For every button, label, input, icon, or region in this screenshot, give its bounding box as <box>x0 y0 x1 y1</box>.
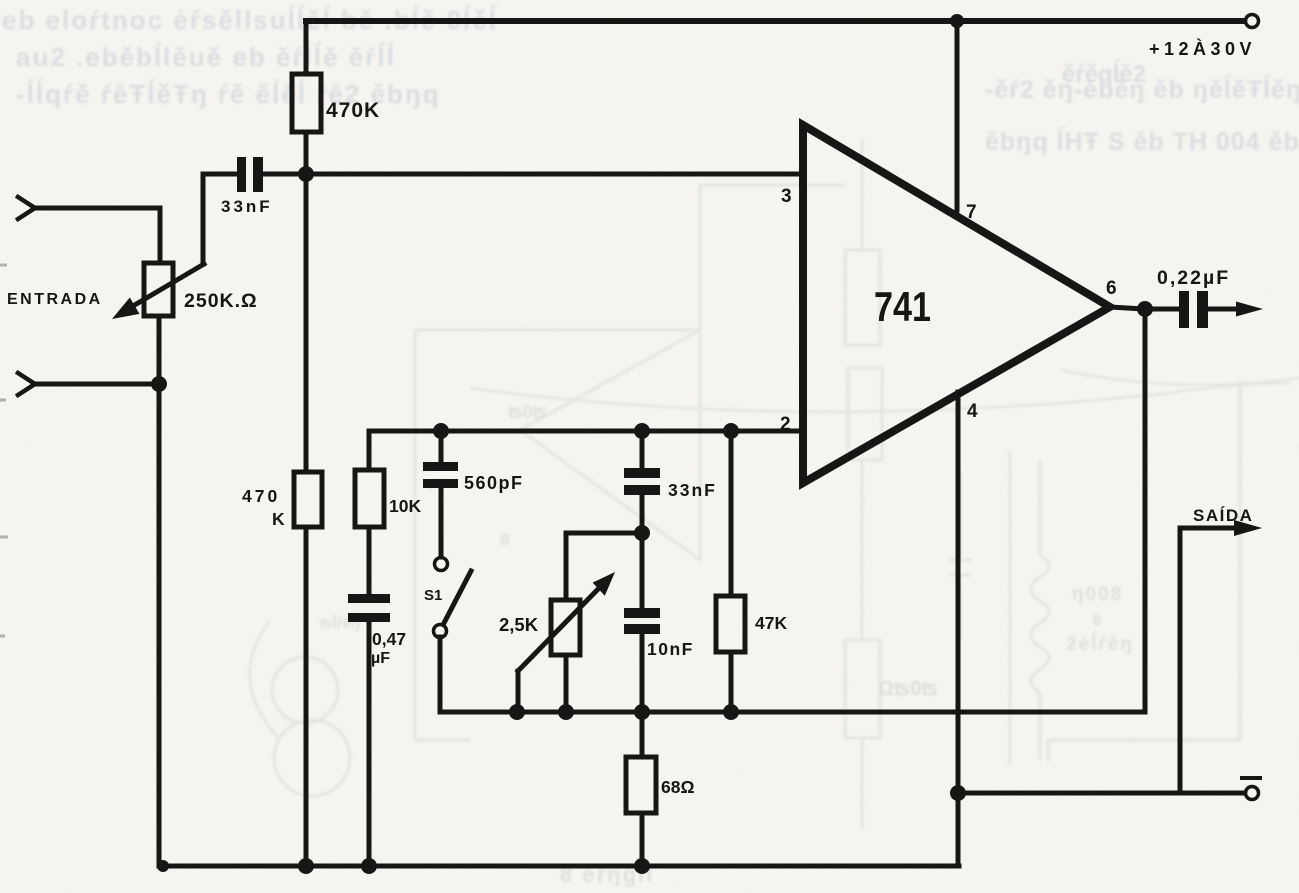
svg-text:470: 470 <box>242 486 280 506</box>
node pot rail junction <box>558 704 574 720</box>
svg-text:10K: 10K <box>389 496 421 516</box>
svg-text:250K.Ω: 250K.Ω <box>184 290 258 312</box>
wire output <box>1110 307 1179 309</box>
capacitor 33nF (feedback) <box>640 431 645 469</box>
svg-text:ENTRADA: ENTRADA <box>7 291 103 308</box>
potentiometer 2,5K <box>566 533 642 600</box>
svg-text:SAÍDA: SAÍDA <box>1193 506 1253 525</box>
node 33nF/10nF junction <box>634 525 650 541</box>
capacitor 0,22uF <box>1179 291 1189 328</box>
pin 4 <box>956 392 961 866</box>
wire left bias vertical <box>304 174 309 866</box>
svg-text:7: 7 <box>966 202 977 223</box>
node ground left corner <box>157 860 169 872</box>
svg-text:K: K <box>272 509 285 529</box>
wiper arrow of 2,5K pot <box>518 584 603 671</box>
capacitor 0,47uF <box>348 594 390 603</box>
svg-text:741: 741 <box>874 283 931 330</box>
resistor 470K (top) <box>304 21 309 174</box>
resistor 47K <box>729 431 734 712</box>
svg-text:33nF: 33nF <box>221 197 273 216</box>
wire upper input <box>33 208 160 263</box>
capacitor 33nF (input) <box>203 172 238 177</box>
op-amp 741 <box>803 125 1110 483</box>
svg-text:68Ω: 68Ω <box>661 777 695 797</box>
wire feedback vertical <box>1143 309 1148 712</box>
wire wiper drop <box>201 174 206 264</box>
node 47K top junction <box>723 423 739 439</box>
svg-text:S1: S1 <box>424 587 442 604</box>
node 47K rail junction <box>723 704 739 720</box>
node 68ohm ground junction <box>634 858 650 874</box>
left edge print artifacts <box>0 265 8 636</box>
svg-text:47K: 47K <box>755 613 787 633</box>
wire negative output line <box>958 791 1244 796</box>
wire lower input <box>33 382 159 387</box>
svg-text:2,5K: 2,5K <box>499 614 539 635</box>
capacitor 10nF <box>640 533 645 609</box>
svg-text:4: 4 <box>967 401 978 422</box>
svg-text:3: 3 <box>781 186 792 207</box>
potentiometer 250K <box>144 263 173 316</box>
terminal +12A30V <box>1246 15 1259 28</box>
node 33nF top junction <box>634 423 650 439</box>
svg-text:470K: 470K <box>326 99 380 122</box>
node pin4/output junction <box>950 785 966 801</box>
input terminal arrow (upper) <box>18 197 35 219</box>
node 560pF top junction <box>433 423 449 439</box>
wire ground rail <box>159 864 959 869</box>
node output junction <box>1137 301 1153 317</box>
resistor 10K <box>367 431 372 595</box>
resistor 470K (lower) <box>294 472 322 527</box>
wire non-inverting input rail (to pin 3) <box>263 172 801 177</box>
svg-text:0,47: 0,47 <box>372 629 406 649</box>
svg-text:33nF: 33nF <box>668 480 717 500</box>
node cap/resistor junction <box>298 166 314 182</box>
input terminal arrow (lower) <box>18 373 35 395</box>
svg-text:µF: µF <box>371 650 390 667</box>
svg-text:+12À30V: +12À30V <box>1149 38 1256 59</box>
svg-text:560pF: 560pF <box>464 473 524 493</box>
svg-text:6: 6 <box>1106 278 1117 299</box>
wire S1 to feedback rail <box>438 637 443 712</box>
resistor 68ohm <box>640 712 645 866</box>
node supply/pin7 junction <box>950 14 964 28</box>
wire feedback bottom rail <box>440 710 1145 715</box>
svg-text:10nF: 10nF <box>647 639 694 659</box>
node wiper rail junction <box>509 704 525 720</box>
wire inverting input rail (to pin 2) <box>369 429 801 434</box>
node 0,47uF ground junction <box>361 858 377 874</box>
node lower input junction <box>151 376 167 392</box>
wire positive supply rail <box>306 18 1244 24</box>
node 470K ground junction <box>298 858 314 874</box>
node 10nF rail junction <box>634 704 650 720</box>
wiper arrow of 250K pot <box>133 264 204 306</box>
wire pot bottom to ground rail <box>157 316 162 866</box>
terminal minus <box>1246 787 1259 800</box>
capacitor 560pF <box>439 431 444 463</box>
svg-text:2: 2 <box>780 414 791 435</box>
pin 7 <box>955 21 960 210</box>
switch S1 <box>435 558 448 571</box>
svg-text:0,22µF: 0,22µF <box>1157 267 1230 289</box>
wire SAIDA output <box>1180 528 1242 793</box>
